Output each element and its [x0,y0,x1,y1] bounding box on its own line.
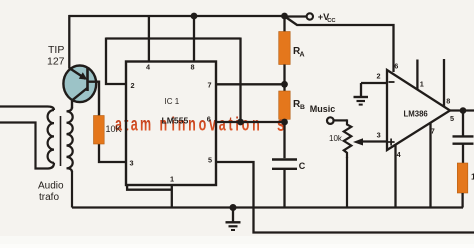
wire C bottom lead [283,170,285,208]
pin labels LM386 [377,62,455,159]
svg-text:C: C [299,161,306,171]
wire rail to pin 2 of IC1 [106,38,126,85]
wire +Vcc terminal lead [285,15,307,17]
wire pin 4 stub to ground rail [394,145,396,208]
node junction pin8/Vcc rail [191,13,198,20]
potentiometer 10k [327,117,387,207]
svg-text:8: 8 [191,63,195,72]
wire RA top lead [283,16,285,32]
wire second rail (pin2/pin7 net) [106,37,241,39]
wire pin 3 of IC1 to 10K resistor [99,144,126,162]
svg-text:A: A [300,52,305,59]
pin labels IC1 [130,63,213,184]
node junction RA/RB/pin7 [281,81,288,88]
wire RB bottom lead [283,119,285,158]
svg-text:8: 8 [446,97,450,106]
wire vertical from rail2 corner down to pin6 net [239,38,241,123]
node junction RB/pin6/C [281,119,288,126]
svg-text:10k: 10k [329,134,343,143]
op-amp plus sign [388,141,395,143]
svg-text:5: 5 [450,114,454,123]
core [60,116,62,166]
svg-text:Audio: Audio [38,181,64,192]
svg-text:7: 7 [431,126,435,135]
svg-text:3: 3 [130,159,134,168]
wire RA bottom lead [283,65,285,92]
resistor 10K (base) [94,116,105,145]
svg-text:127: 127 [47,56,65,68]
svg-text:2: 2 [131,81,135,90]
svg-text:B: B [300,104,305,111]
wire pin 4 stub of IC1 [148,16,150,62]
svg-text:5: 5 [208,155,212,164]
terminal +Vcc open circle [307,13,313,19]
secondary bottom lead to ground rail [71,171,73,208]
secondary winding [67,107,73,172]
op-amp minus sign [389,81,395,83]
wire Q1 emitter to rail [68,15,70,69]
wire pin 7 stub to ground rail [429,123,431,208]
svg-text:7: 7 [208,81,212,90]
svg-text:1: 1 [420,80,424,89]
pot zigzag [344,119,352,158]
pot bottom lead [346,157,348,208]
wire pin 8 stub [443,59,445,107]
svg-text:LM386: LM386 [404,110,429,119]
svg-text:LM555: LM555 [162,115,189,125]
svg-text:CC: CC [327,18,336,24]
svg-text:1: 1 [170,175,174,184]
wire pin 2 input [361,82,387,84]
wire output pin 5 [450,109,474,111]
wire output resistor to ground rail [461,193,463,208]
svg-text:Music: Music [310,104,336,114]
resistor RA [279,32,291,65]
svg-text:2: 2 [377,72,381,81]
op-amp IC1 LM555 body [126,62,216,186]
node junction +Vcc / RA [281,13,288,20]
transistor Q1 TIP127 [63,66,99,116]
wire pin 7 of IC1 to RA/RB junction [216,83,285,85]
primary top lead [0,107,54,111]
primary bottom lead [0,123,54,169]
capacitor output coupling [462,111,464,136]
wire pin 5 of IC1 going down and right [216,162,474,233]
wire pin 8 stub of IC1 [193,16,195,62]
wire from Vcc junction to LM386 pin 6 [286,17,394,72]
wire stub below IC1 bottom-left [127,184,172,190]
svg-text:trafo: trafo [39,192,59,203]
svg-text:3: 3 [377,130,381,139]
wire music to pot [334,119,347,121]
svg-text:IC 1: IC 1 [165,97,180,106]
transformer T1 audio [0,107,73,208]
primary winding [48,110,54,163]
resistor RB [279,91,291,119]
wire ground rail [72,206,463,208]
svg-text:TIP: TIP [48,44,64,56]
svg-text:10K: 10K [106,124,122,134]
wire +Vcc top rail [69,15,286,17]
node junction output [460,107,467,114]
wire pin 1 of IC1 down to ground rail [171,185,173,208]
op-amp U2 LM386 [354,59,474,208]
node junction rail2corner/pin6 [237,119,244,126]
wire pin 6 of IC1 to RB bottom [216,121,285,123]
ground symbol at main rail [230,204,237,211]
resistor 10 (output) [457,163,468,193]
ground symbol at pin 2 [360,83,362,96]
base wire to 10K [88,82,100,116]
wire pin 1 stub [416,60,418,90]
svg-text:6: 6 [394,62,398,71]
pot wiper arrow to LM386 pin3 [362,140,388,142]
terminal Music open circle [327,117,334,124]
capacitor C plates [272,158,297,160]
svg-text:6: 6 [207,115,211,124]
watermark swagatam innovations [115,112,285,136]
